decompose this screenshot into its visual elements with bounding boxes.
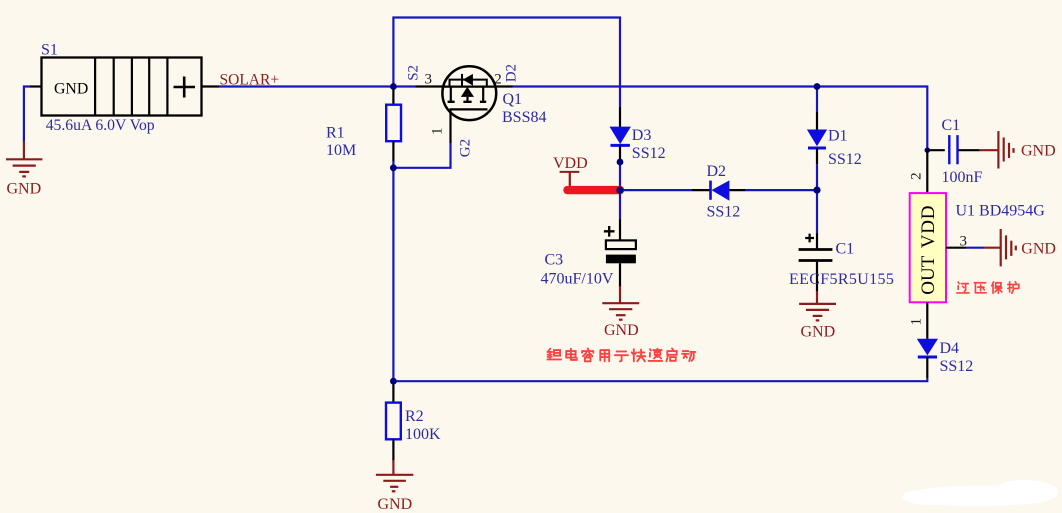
svg-text:EECF5R5U155: EECF5R5U155 [789,271,894,288]
node bottom/R2 [390,378,397,385]
capacitor C1 100nF [925,135,980,164]
svg-text:VDD: VDD [918,205,939,249]
svg-text:GND: GND [1021,240,1056,257]
node SOLAR+/R1 [390,83,397,90]
C1 plates [949,135,957,164]
ground (C1 100nF, rotated) [980,131,1014,168]
svg-text:SS12: SS12 [707,203,741,220]
wire: main rail right of Q1 [513,87,928,151]
node VDD/C3 [616,187,623,194]
wire: main rail SOLAR+ [219,85,416,87]
wire: R1 to bottom rail [392,168,394,381]
wire: gate net [393,143,450,168]
svg-text:470uF/10V: 470uF/10V [541,271,614,288]
svg-text:Q1: Q1 [503,91,523,108]
note: overvoltage caption (hand-drawn CJK) [957,282,1019,294]
Q1 main line [443,85,496,87]
capacitor C1 (EECF5R5U155) [799,190,833,292]
Q1 pin 3 lead [416,85,444,87]
Q1 gate plate [450,108,488,110]
wire: bottom rail [393,379,927,382]
svg-text:D2: D2 [504,64,520,82]
svg-text:GND: GND [7,181,42,198]
svg-text:U1 BD4954G: U1 BD4954G [956,203,1046,220]
ground S1 (power symbol) [6,141,42,176]
svg-text:GND: GND [604,322,639,339]
Q1 source stub [450,87,452,102]
diode D3 [610,107,631,162]
capacitor C3 [604,190,636,287]
Q1 body diode arrow [463,74,473,86]
svg-text:D4: D4 [940,340,960,357]
svg-text:100nF: 100nF [942,169,983,186]
junction tap [925,147,931,153]
svg-text:OUT: OUT [918,255,939,294]
plus mark in S1 [174,77,196,98]
transistor Q1 (P-MOSFET BSS84) [416,66,513,143]
ground (C3) [602,286,639,320]
svg-text:SS12: SS12 [828,151,862,168]
ground (U1 pin3, rotated) [984,229,1016,266]
svg-text:GND: GND [801,324,836,341]
Q1 channel segments [448,101,487,103]
svg-text:100K: 100K [405,426,441,443]
svg-text:VDD: VDD [553,155,588,172]
Q1 gate lead [449,109,451,143]
svg-text:GND: GND [378,496,413,513]
Q1 arrow (channel) [461,87,474,97]
node gate/R1 [390,164,397,171]
svg-text:SS12: SS12 [940,358,974,375]
wire: top loop [393,18,620,108]
svg-text:45.6uA 6.0V Vop: 45.6uA 6.0V Vop [46,117,155,134]
svg-text:1: 1 [908,318,924,326]
svg-text:3: 3 [425,71,433,87]
Q1 body-diode bracket [450,80,487,87]
svg-text:1: 1 [430,128,446,136]
svg-text:GND: GND [1021,143,1056,160]
C3 top plate [606,240,636,249]
resistor R1 [386,87,401,168]
svg-text:S2: S2 [406,65,422,81]
svg-text:10M: 10M [326,142,356,159]
svg-text:C3: C3 [545,252,564,269]
svg-text:C1: C1 [836,241,855,258]
diode D4 [917,302,938,378]
svg-text:2: 2 [494,72,502,88]
battery S1 box [42,58,202,116]
diode D1 [807,87,827,191]
U1 pin 3 lead [946,247,966,249]
diode D2 [692,180,746,200]
Q1 body diode bar [461,74,463,86]
watermark wipe [902,480,1058,507]
note: tantalum caption (hand-drawn CJK) [547,348,695,361]
C3 plus mark [604,226,615,237]
svg-text:GND: GND [54,81,88,98]
wire: pin3 to ground [966,247,984,249]
svg-text:G2: G2 [458,139,474,157]
svg-text:BSS84: BSS84 [502,109,546,126]
IC U1 BD4954G [910,150,946,302]
svg-text:2: 2 [908,172,924,180]
Q1 drain stub [482,87,484,102]
resistor R2 [386,381,401,461]
svg-text:C1: C1 [942,117,961,134]
node SOLAR+/D1 [814,83,821,90]
U1 pin 2 lead [926,150,928,193]
ground (R2) [376,460,413,491]
node D3 cathode [617,159,624,166]
C1e bottom plate [799,259,833,262]
U1 pin 1 lead [926,302,928,339]
svg-text:S1: S1 [41,42,58,59]
S1 right pin [202,85,220,87]
wire: D2 to D1 node [746,189,817,191]
svg-text:SS12: SS12 [632,145,666,162]
node VDD/C1 [813,187,820,194]
svg-text:R1: R1 [326,124,345,141]
wire: S1 left pin to GND corner [24,87,42,143]
wire: VDD net to D2 [620,189,692,191]
wire: D3 to VDD node [619,162,621,190]
Q1 pin 2 lead [496,85,513,87]
C1e plus mark [805,234,814,243]
svg-text:D3: D3 [632,127,652,144]
svg-text:D1: D1 [828,128,848,145]
wire: VDD red highlighted segment [568,186,621,194]
svg-text:D2: D2 [707,163,727,180]
ground (C1 EECF) [799,291,836,320]
C1e top plate [799,248,833,251]
C3 bottom plate [606,255,636,264]
svg-text:R2: R2 [405,408,424,425]
power port VDD [553,155,620,190]
Q1 circle [442,66,496,120]
